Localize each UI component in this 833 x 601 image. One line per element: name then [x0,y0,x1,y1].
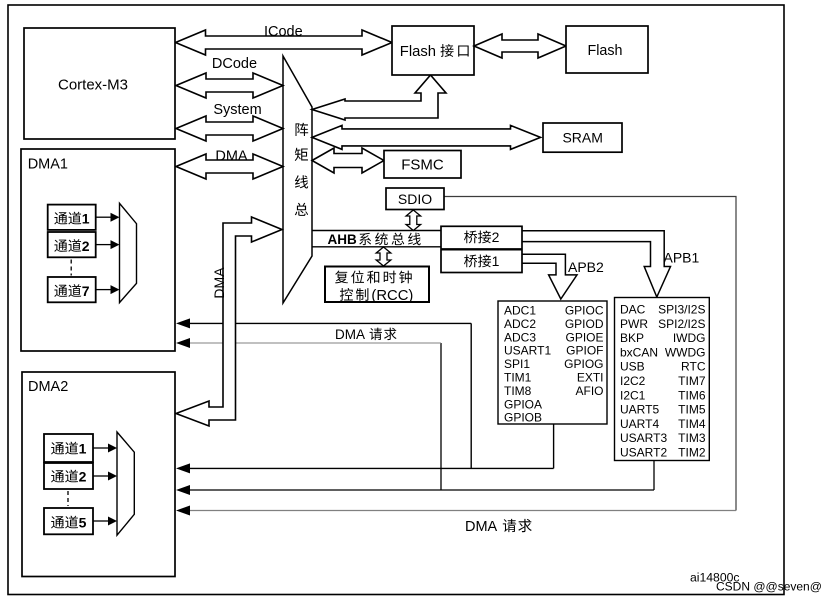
block DMA1 channel 7 [48,277,96,302]
svg-text:ICode: ICode [264,24,303,40]
svg-text:TIM7: TIM7 [678,374,706,388]
wire DMA2 channel5 to arbiter [93,517,117,526]
svg-text:1: 1 [79,441,87,457]
bus APB2 hollow arrow from bridge1 [522,254,577,299]
label FSMC [401,157,444,174]
list APB1 peripherals left column [620,303,667,460]
label DMA2 channel 1 [51,441,86,457]
wire DMA2 channel ellipsis (dashed) [67,491,69,506]
watermark CSDN [716,580,822,594]
svg-text:TIM5: TIM5 [678,403,706,417]
bus RCC to AHB double arrow [376,247,391,266]
svg-text:(RCC): (RCC) [371,288,413,304]
svg-text:2: 2 [79,469,87,485]
svg-text:ADC2: ADC2 [504,317,536,331]
label DMA request (lower) [465,519,532,535]
wire DMA2 channel2 to arbiter [93,472,117,481]
svg-text:GPIOA: GPIOA [504,397,542,411]
label DMA2 channel 2 [51,469,86,485]
svg-text:GPIOG: GPIOG [564,357,603,371]
arrowhead APB2 request into DMA2 [176,463,190,473]
svg-text:Flash: Flash [588,43,623,59]
wire APB2 DMA request trunk [188,424,554,468]
wire DMA1 channel2 to arbiter [96,240,120,249]
label System [213,102,261,118]
label APB2 [568,259,604,275]
svg-text:USART3: USART3 [620,431,667,445]
bus ICode arrow [176,30,393,55]
bus APB1 hollow arrow from bridge2 [522,231,671,297]
bus SDIO to AHB double arrow [406,210,421,231]
svg-text:1: 1 [492,253,500,269]
svg-text:USART1: USART1 [504,344,551,358]
bus FSMC arrow [312,148,384,173]
mux DMA1 arbiter trapezoid [120,203,137,302]
block DMA2 [22,372,175,577]
bus SRAM arrow [312,125,541,149]
svg-text:BKP: BKP [620,331,644,345]
arrowhead APB1 request into DMA1 [176,338,190,348]
block DMA2 channel 1 [44,434,93,462]
svg-text:5: 5 [79,515,87,531]
svg-text:GPIOB: GPIOB [504,411,542,425]
label SRAM [562,129,602,145]
divider between bridge2 and bridge1 [441,248,522,250]
label DMA (vertical on elbow arrow) [211,267,227,299]
wire APB1 request branch to DMA1 [188,343,441,490]
svg-text:APB1: APB1 [664,249,700,265]
block DMA1 channel 1 [48,205,96,230]
bus DCode arrow [176,73,283,98]
label AHB system bus [328,232,421,247]
svg-text:DMA2: DMA2 [28,379,68,395]
svg-text:USB: USB [620,360,645,374]
block APB2 peripherals [498,301,607,424]
label DMA1 channel 7 [54,283,89,299]
svg-text:PWR: PWR [620,317,648,331]
svg-text:TIM4: TIM4 [678,417,706,431]
label bus matrix (vertical) [295,123,308,216]
svg-text:UART4: UART4 [620,417,659,431]
block Flash [566,26,648,73]
svg-text:7: 7 [82,283,90,299]
mux DMA2 arbiter trapezoid [117,432,134,535]
label DMA1 channel 2 [54,238,89,254]
svg-text:TIM6: TIM6 [678,388,706,402]
svg-text:ADC1: ADC1 [504,304,536,318]
svg-text:TIM2: TIM2 [678,446,706,460]
svg-text:CSDN @@seven@: CSDN @@seven@ [716,580,822,594]
svg-text:I2C2: I2C2 [620,374,646,388]
svg-text:USART2: USART2 [620,446,667,460]
svg-text:DCode: DCode [212,56,257,72]
bus AHB system bus band [312,231,441,247]
wire SDIO DMA request (SDIO right to DMA2) [188,197,736,511]
block DMA1 [21,149,175,351]
block bridge2/bridge1 outer [441,226,522,272]
label APB1 [664,249,700,265]
svg-text:GPIOE: GPIOE [565,330,603,344]
svg-text:DMA: DMA [335,327,365,342]
label Cortex-M3 [58,76,128,93]
label DMA1 [28,157,68,173]
svg-text:UART5: UART5 [620,403,659,417]
svg-text:DMA: DMA [211,267,227,299]
svg-text:DMA1: DMA1 [28,157,68,173]
block FSMC [384,151,461,179]
svg-text:IWDG: IWDG [673,331,706,345]
svg-text:WWDG: WWDG [665,345,706,359]
block SRAM [543,123,622,152]
svg-text:Cortex-M3: Cortex-M3 [58,76,128,93]
block APB1 peripherals [615,298,710,461]
svg-text:EXTI: EXTI [577,371,604,385]
arrowhead APB2 request into DMA1 [176,318,190,328]
svg-text:bxCAN: bxCAN [620,345,658,359]
label Flash interface [400,44,469,60]
svg-text:SPI1: SPI1 [504,357,530,371]
bus matrix polygon [283,56,312,303]
bus Flash interface to Flash double arrow [474,34,566,58]
block DMA2 channel 5 [44,508,93,534]
svg-text:Flash: Flash [400,44,436,60]
wire DMA1 channel1 to arbiter [96,213,120,222]
label bridge 2 [464,229,500,245]
label figure id ai14800c [690,571,739,585]
label DMA request (upper) [335,327,397,342]
block Flash interface [392,26,474,75]
bus DMA arrow (DMA1 to matrix) [176,154,283,179]
label RCC line1 [335,270,412,283]
arrowhead SDIO request into DMA2 [176,506,190,516]
label ICode [264,24,303,40]
label RCC line2 [340,288,414,304]
block SDIO [386,188,444,210]
svg-text:AFIO: AFIO [575,384,603,398]
svg-text:FSMC: FSMC [401,157,444,174]
svg-text:GPIOC: GPIOC [565,304,604,318]
bus System arrow [176,116,283,141]
label SDIO [398,191,432,207]
wire APB2 request branch to DMA1 [188,323,471,468]
svg-text:2: 2 [492,229,500,245]
svg-text:DMA: DMA [465,519,498,535]
wire DMA2 channel1 to arbiter [93,444,117,453]
label Flash [588,43,623,59]
svg-text:TIM3: TIM3 [678,431,706,445]
arrowhead APB1 request into DMA2 [176,485,190,495]
svg-text:ADC3: ADC3 [504,330,536,344]
label DMA2 channel 5 [51,515,86,531]
bus DMA2 elbow arrow (matrix to DMA2) [176,217,282,426]
label DMA bus [215,148,248,164]
svg-text:GPIOD: GPIOD [565,317,604,331]
label DCode [212,56,257,72]
svg-text:GPIOF: GPIOF [566,344,603,358]
svg-text:SPI2/I2S: SPI2/I2S [658,317,705,331]
svg-text:1: 1 [82,211,90,227]
svg-text:TIM8: TIM8 [504,384,532,398]
svg-text:DMA: DMA [215,148,248,164]
svg-text:SDIO: SDIO [398,191,432,207]
svg-text:RTC: RTC [681,360,706,374]
wire DMA1 channel ellipsis (dashed) [70,260,72,276]
svg-text:APB2: APB2 [568,259,604,275]
svg-text:TIM1: TIM1 [504,371,532,385]
block Cortex-M3 [24,28,175,139]
svg-text:I2C1: I2C1 [620,388,646,402]
list APB2 peripherals left column [504,304,551,425]
label DMA2 [28,379,68,395]
wire APB1 DMA request trunk [188,461,654,491]
label bridge 1 [464,253,500,269]
svg-text:AHB: AHB [328,232,357,247]
block DMA2 channel 2 [44,463,93,489]
svg-text:SRAM: SRAM [562,129,602,145]
block DMA1 channel 2 [48,232,96,257]
svg-text:SPI3/I2S: SPI3/I2S [658,303,705,317]
list APB2 peripherals right column [564,304,604,398]
wire DMA1 channel7 to arbiter [96,285,120,294]
list APB1 peripherals right column [658,303,706,460]
svg-text:System: System [213,102,261,118]
svg-text:2: 2 [82,238,90,254]
bus Flash interface to matrix elbow arrow [312,75,446,120]
svg-text:DAC: DAC [620,303,646,317]
block RCC (reset and clock control) [325,267,429,303]
label DMA1 channel 1 [54,211,89,227]
